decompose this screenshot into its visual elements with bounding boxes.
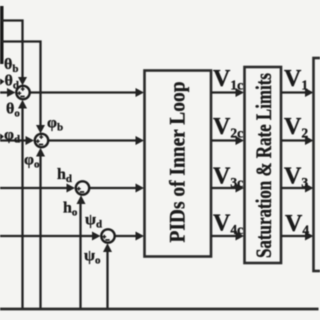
summing junction theta bbox=[16, 86, 29, 99]
wire phi output to PID bbox=[49, 139, 137, 141]
wire V4 bbox=[281, 235, 307, 237]
wire psi output to PID bbox=[115, 235, 137, 237]
wire h output to PID bbox=[90, 187, 137, 189]
quadrotor box (cut off at right edge) bbox=[314, 58, 320, 271]
svg-text:PIDs of Inner Loop: PIDs of Inner Loop bbox=[165, 82, 190, 243]
wire V2c bbox=[211, 139, 237, 141]
wire psi_d input bbox=[0, 235, 96, 237]
wire theta output to PID bbox=[30, 91, 137, 93]
wire V4c bbox=[211, 235, 237, 237]
svg-text:Saturation & Rate Limits: Saturation & Rate Limits bbox=[251, 73, 276, 258]
wire phi_d input bbox=[0, 139, 30, 141]
feedback wire phi_o bbox=[39, 156, 41, 310]
summing junction psi bbox=[101, 229, 114, 242]
wire phi_b from box bbox=[1, 42, 41, 130]
wire V3 bbox=[281, 187, 307, 189]
feedback wire psi_o bbox=[106, 252, 108, 311]
controller box (cut off at left edge) bbox=[0, 6, 4, 64]
wire h_d input bbox=[0, 187, 71, 189]
wire V1c bbox=[211, 91, 237, 93]
wire theta_b from box bbox=[1, 21, 23, 82]
feedback wire h_o bbox=[79, 204, 81, 311]
summing junction phi bbox=[35, 134, 48, 147]
wire V2 bbox=[281, 139, 307, 141]
wire V3c bbox=[211, 187, 237, 189]
wire theta_d input bbox=[0, 91, 11, 93]
PID box bbox=[145, 71, 212, 257]
summing junction h bbox=[76, 181, 89, 194]
feedback wire theta_o bbox=[21, 108, 23, 310]
feedback bus bbox=[0, 308, 319, 311]
wire V1 bbox=[281, 91, 307, 93]
label theta_d bbox=[0, 79, 5, 86]
label phi_d bbox=[0, 134, 4, 141]
saturation box bbox=[245, 67, 282, 263]
